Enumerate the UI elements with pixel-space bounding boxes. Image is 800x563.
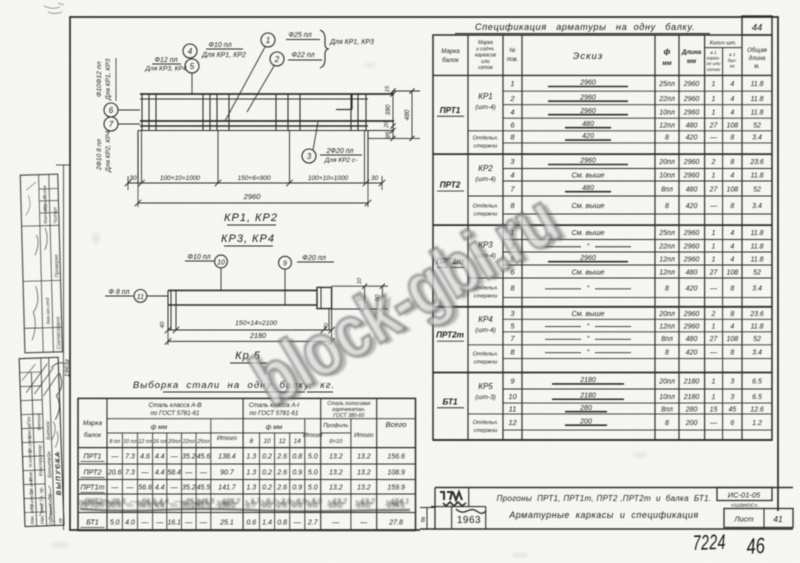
svg-text:4: 4	[730, 81, 734, 88]
svg-text:Битнос: Битнос	[45, 420, 52, 440]
svg-text:4: 4	[188, 47, 193, 56]
svg-text:—: —	[331, 520, 340, 527]
svg-text:100×10=1000: 100×10=1000	[308, 175, 349, 182]
svg-text:7: 7	[109, 120, 114, 129]
beam1 dimension line segments	[128, 182, 382, 184]
svg-text:108: 108	[726, 269, 738, 276]
svg-text:150×14=2100: 150×14=2100	[235, 320, 277, 327]
svg-text:11.8: 11.8	[750, 96, 763, 103]
svg-text:13.2: 13.2	[329, 485, 343, 492]
callout circle 11	[134, 290, 147, 303]
svg-text:Арматурные каркасы и специф: Арматурные каркасы и спецификация	[508, 510, 698, 520]
svg-text:13.2: 13.2	[327, 499, 341, 508]
svg-text:480: 480	[404, 109, 411, 120]
svg-text:0.9: 0.9	[292, 485, 302, 492]
svg-text:5: 5	[190, 62, 195, 71]
svg-text:ИС-01-05: ИС-01-05	[728, 491, 761, 500]
svg-text:45: 45	[728, 406, 736, 413]
svg-text:ПРТ1т: ПРТ1т	[81, 483, 105, 492]
beam2 body outline	[168, 305, 332, 330]
svg-text:—: —	[709, 286, 718, 293]
svg-text:Ф10 пл: Ф10 пл	[187, 254, 210, 261]
svg-text:—: —	[184, 470, 193, 477]
svg-text:3: 3	[510, 157, 515, 166]
svg-text:2960: 2960	[243, 192, 262, 201]
svg-text:—: —	[170, 454, 179, 461]
svg-text:Марка: Марка	[478, 40, 493, 46]
svg-text:См. выше: См. выше	[571, 309, 604, 318]
svg-text:сеток: сеток	[478, 65, 493, 71]
svg-text:—: —	[709, 420, 718, 427]
svg-text:8: 8	[730, 159, 734, 166]
svg-text:КР1: КР1	[478, 92, 493, 101]
svg-text:0.9: 0.9	[290, 499, 300, 508]
svg-text:Прогоны ПРТ1, ПРТ1т, ПРТ2 ,ПР: Прогоны ПРТ1, ПРТ1т, ПРТ2 ,ПРТ2т и балка…	[497, 494, 712, 503]
svg-text:Ф10Ф12 пл: Ф10Ф12 пл	[96, 61, 103, 97]
svg-text:8: 8	[665, 135, 669, 142]
svg-text:159.9: 159.9	[387, 485, 405, 492]
svg-text:13.2: 13.2	[357, 470, 371, 477]
beam2 end head block	[317, 287, 332, 308]
svg-text:8: 8	[510, 133, 515, 142]
svg-text:7.3: 7.3	[125, 470, 135, 477]
beam1 bottom chord lower	[140, 125, 368, 127]
svg-text:″: ″	[587, 244, 590, 251]
svg-text:35.2: 35.2	[182, 485, 196, 492]
svg-text:2960: 2960	[683, 159, 700, 166]
callout circle 1 (Ф25)	[261, 33, 275, 47]
svg-text:10пл: 10пл	[659, 109, 675, 116]
svg-text:и содчч.: и содчч.	[476, 46, 495, 52]
svg-text:420: 420	[686, 135, 698, 142]
svg-text:2960: 2960	[683, 173, 700, 180]
svg-text:45.5: 45.5	[194, 499, 209, 508]
svg-text:4: 4	[510, 171, 514, 180]
svg-text:2Ф20 пл: 2Ф20 пл	[326, 148, 354, 155]
svg-text:20пл: 20пл	[658, 159, 675, 166]
callout circle 2 (Ф22)	[270, 52, 284, 66]
svg-text:—: —	[709, 350, 718, 357]
svg-text:3: 3	[510, 309, 515, 318]
svg-text:8: 8	[730, 311, 734, 318]
svg-text:0.8: 0.8	[277, 520, 287, 527]
spec group ПРТ2 / КР2	[503, 168, 772, 170]
svg-text:27.8: 27.8	[388, 520, 403, 527]
svg-text:27: 27	[709, 269, 719, 276]
svg-text:108: 108	[726, 336, 738, 343]
svg-text:См. выше: См. выше	[571, 267, 604, 276]
svg-text:11: 11	[509, 404, 517, 413]
svg-text:420: 420	[686, 350, 698, 357]
svg-text:22пл: 22пл	[658, 244, 675, 251]
svg-text:4.6: 4.6	[140, 454, 150, 461]
handwritten 46	[746, 534, 766, 560]
svg-text:20.6: 20.6	[107, 470, 122, 477]
svg-text:280: 280	[685, 406, 698, 413]
svg-text:Итого: Итого	[354, 432, 374, 439]
svg-text:ф мм: ф мм	[266, 424, 283, 431]
beam1 right step notch	[351, 94, 353, 110]
svg-text:4.4: 4.4	[155, 485, 165, 492]
svg-text:5: 5	[510, 321, 515, 330]
svg-text:″: ″	[587, 350, 590, 357]
handwritten 7224	[692, 530, 726, 555]
svg-text:4: 4	[730, 109, 734, 116]
svg-text:11.8: 11.8	[750, 244, 763, 251]
svg-text:ПРТ2: ПРТ2	[440, 181, 461, 190]
svg-text:в 1: в 1	[710, 50, 717, 55]
spec table column lines	[467, 35, 469, 440]
svg-text:№: №	[509, 47, 516, 54]
svg-text:420: 420	[686, 203, 698, 210]
svg-text:4: 4	[510, 107, 514, 116]
svg-text:Ф20 пл: Ф20 пл	[302, 253, 326, 262]
callout circle 7	[104, 117, 118, 131]
svg-text:Ф22 пл: Ф22 пл	[291, 52, 314, 59]
svg-text:25.1: 25.1	[219, 520, 234, 527]
code box ИС-01-05	[717, 488, 772, 501]
svg-text:1.7: 1.7	[244, 499, 255, 508]
svg-text:12пл: 12пл	[659, 256, 675, 263]
svg-text:13.2: 13.2	[357, 454, 371, 461]
svg-text:ПРТ1: ПРТ1	[84, 452, 102, 461]
svg-text:11: 11	[137, 294, 144, 301]
svg-text:—: —	[199, 470, 208, 477]
svg-text:2960: 2960	[683, 323, 700, 330]
svg-text:420: 420	[686, 286, 698, 293]
svg-text:2.6: 2.6	[276, 470, 287, 477]
svg-text:13.2: 13.2	[355, 499, 369, 508]
svg-text:46: 46	[746, 534, 766, 560]
upper rotated stamp	[20, 174, 62, 353]
svg-text:95: 95	[386, 131, 392, 138]
svg-text:4: 4	[730, 323, 734, 330]
svg-text:2960: 2960	[579, 94, 596, 101]
svg-text:30: 30	[371, 175, 379, 182]
svg-text:2180: 2180	[579, 377, 596, 384]
logo cell	[468, 488, 470, 507]
svg-text:1.4: 1.4	[262, 520, 272, 527]
svg-text:390: 390	[385, 104, 392, 115]
svg-text:2960: 2960	[683, 81, 700, 88]
svg-text:30: 30	[129, 175, 137, 182]
svg-text:8пл: 8пл	[661, 406, 673, 413]
beam1 stirrups	[141, 94, 143, 131]
sheet number 44 box	[742, 16, 772, 35]
svg-text:бал-: бал-	[728, 58, 738, 63]
svg-text:2960: 2960	[683, 256, 700, 263]
svg-text:8: 8	[730, 350, 734, 357]
svg-text:1963: 1963	[457, 515, 481, 526]
svg-text:20пл: 20пл	[167, 439, 180, 445]
svg-text:3: 3	[730, 394, 734, 401]
svg-text:Колич шт.: Колич шт.	[710, 41, 737, 47]
svg-text:25пл: 25пл	[196, 439, 209, 445]
svg-text:13.2: 13.2	[329, 470, 343, 477]
svg-text:2180: 2180	[683, 379, 700, 386]
svg-text:2.6: 2.6	[274, 499, 285, 508]
svg-text:12пл: 12пл	[659, 122, 675, 129]
svg-text:—: —	[359, 520, 368, 527]
vybor header lines	[107, 418, 416, 420]
svg-text:12: 12	[279, 438, 286, 445]
svg-text:27: 27	[709, 186, 719, 193]
svg-text:9: 9	[283, 261, 287, 268]
svg-text:10 пл: 10 пл	[123, 439, 137, 445]
spec group БТ1 / КР5	[503, 388, 772, 390]
svg-text:КР1, КР2: КР1, КР2	[224, 212, 278, 224]
svg-text:9: 9	[510, 377, 515, 386]
svg-text:11.8: 11.8	[750, 109, 763, 116]
svg-text:6: 6	[730, 420, 734, 427]
svg-text:2180: 2180	[683, 394, 700, 401]
svg-text:8: 8	[665, 286, 669, 293]
svg-text:Отдельн.: Отдельн.	[473, 135, 499, 141]
svg-text:4.4: 4.4	[153, 499, 163, 508]
svg-text:0.9: 0.9	[292, 470, 302, 477]
svg-text:25пл: 25пл	[658, 230, 675, 237]
svg-text:—: —	[168, 499, 177, 508]
svg-text:11.8: 11.8	[750, 230, 763, 237]
svg-text:154.1: 154.1	[385, 499, 403, 508]
svg-text:Гео: Гео	[26, 416, 32, 424]
svg-text:1: 1	[266, 36, 270, 45]
beam2 left edge	[167, 290, 169, 305]
svg-text:1: 1	[712, 96, 716, 103]
left sidebar stamps	[19, 3, 71, 530]
beam2 dim line 40/2100/40	[165, 327, 171, 333]
svg-text:—: —	[141, 470, 150, 477]
svg-text:Ф25 пл: Ф25 пл	[288, 32, 311, 39]
svg-text:ПРТ2т: ПРТ2т	[79, 499, 103, 508]
svg-text:7.3: 7.3	[125, 454, 135, 461]
svg-text:2960: 2960	[579, 158, 596, 165]
title block	[420, 488, 793, 530]
svg-text:КР2: КР2	[478, 164, 493, 173]
svg-text:Профиль: Профиль	[323, 423, 348, 429]
svg-text:4: 4	[730, 96, 734, 103]
svg-text:12пл: 12пл	[659, 323, 675, 330]
svg-text:Итого: Итого	[303, 432, 323, 439]
svg-text:ПРТ2: ПРТ2	[84, 468, 102, 477]
svg-text:22пл: 22пл	[182, 439, 195, 445]
beam2 right dimension lines	[332, 285, 388, 287]
svg-text:56.6: 56.6	[138, 485, 152, 492]
svg-text:8пл: 8пл	[661, 186, 673, 193]
svg-text:480: 480	[582, 121, 594, 128]
svg-text:2.6: 2.6	[276, 485, 287, 492]
svg-text:—: —	[125, 485, 134, 492]
svg-text:8: 8	[510, 348, 515, 357]
svg-text:1: 1	[712, 256, 716, 263]
svg-text:100×10=1000: 100×10=1000	[160, 175, 201, 182]
svg-text:—: —	[155, 520, 164, 527]
brace for КР1, КР3	[320, 30, 329, 68]
svg-text:40: 40	[160, 321, 166, 328]
svg-text:11.8: 11.8	[750, 256, 763, 263]
svg-text:3.4: 3.4	[752, 350, 762, 357]
beam2 bottom chord	[168, 304, 317, 306]
svg-text:—: —	[110, 454, 119, 461]
svg-text:Итого: Итого	[217, 435, 237, 442]
svg-text:δ=10: δ=10	[329, 439, 343, 445]
svg-text:се или: се или	[707, 61, 721, 66]
svg-text:0.2: 0.2	[262, 485, 272, 492]
svg-text:по ГОСТ 5781-61: по ГОСТ 5781-61	[150, 410, 199, 417]
svg-text:Для КР1, КР2: Для КР1, КР2	[201, 52, 246, 59]
svg-text:10: 10	[508, 392, 517, 401]
svg-text:(шт-3): (шт-3)	[475, 394, 496, 401]
svg-text:БТ1: БТ1	[86, 518, 99, 527]
svg-text:Эскиз: Эскиз	[573, 51, 604, 62]
svg-text:13.2: 13.2	[329, 454, 343, 461]
svg-text:ПРТ1: ПРТ1	[440, 106, 461, 115]
svg-text:52: 52	[753, 186, 761, 193]
svg-text:141.7: 141.7	[218, 485, 237, 492]
svg-text:Всего: Всего	[386, 420, 407, 429]
svg-text:БТ1: БТ1	[442, 397, 457, 406]
beam1 body zone dividers	[217, 131, 219, 184]
beam2 top chord	[168, 289, 317, 291]
svg-text:5.0: 5.0	[306, 499, 316, 508]
beam1 bottom chord upper	[140, 120, 394, 122]
svg-text:4.4: 4.4	[155, 454, 165, 461]
svg-text:8: 8	[250, 438, 254, 445]
svg-text:3: 3	[307, 152, 312, 161]
svg-text:13.2: 13.2	[357, 485, 371, 492]
svg-text:2: 2	[711, 311, 716, 318]
svg-text:480: 480	[582, 185, 594, 192]
sidebar inner vertical line	[63, 165, 65, 530]
svg-text:Отдельн.: Отдельн.	[473, 420, 499, 426]
svg-text:12 пл: 12 пл	[138, 439, 152, 445]
svg-text:гв: гв	[58, 518, 64, 524]
svg-text:44: 44	[752, 23, 763, 34]
svg-text:Общая: Общая	[747, 48, 768, 54]
svg-text:6: 6	[510, 120, 515, 129]
svg-text:25пл: 25пл	[658, 81, 675, 88]
svg-text:480: 480	[686, 186, 698, 193]
beam2 stirrup pair left	[170, 290, 172, 330]
vybor outer border	[78, 398, 416, 530]
callout circle 5 (Ф12)	[185, 59, 199, 73]
callout circle 4 (Ф10)	[183, 44, 197, 58]
svg-text:2: 2	[711, 159, 716, 166]
svg-text:1: 1	[712, 81, 716, 88]
svg-text:2960: 2960	[683, 230, 700, 237]
svg-text:пов.: пов.	[507, 57, 518, 63]
svg-text:Согласовано: Согласовано	[55, 317, 62, 350]
svg-text:16.1: 16.1	[167, 520, 181, 527]
beam1 body outline	[138, 131, 368, 184]
svg-text:20пл: 20пл	[658, 379, 675, 386]
svg-text:КР5: КР5	[478, 382, 493, 391]
svg-text:или: или	[481, 59, 490, 65]
svg-text:См. выше: См. выше	[571, 171, 604, 180]
svg-text:Для КР3, КР4: Для КР3, КР4	[144, 66, 187, 73]
callout circle 3 (2Ф20)	[302, 149, 316, 163]
svg-text:(шт-4): (шт-4)	[475, 327, 496, 334]
svg-text:108: 108	[726, 122, 738, 129]
vybor ghost smeared row (scan artifact)	[79, 497, 410, 512]
svg-text:″: ″	[587, 336, 590, 343]
svg-text:ПРТ2т: ПРТ2т	[436, 331, 464, 340]
spec group ПРТ2т / КР4	[503, 318, 772, 320]
svg-text:1: 1	[712, 109, 716, 116]
svg-text:2960: 2960	[579, 255, 596, 262]
svg-text:27: 27	[709, 336, 719, 343]
svg-text:5.0: 5.0	[308, 485, 318, 492]
svg-text:3: 3	[730, 379, 734, 386]
svg-text:Проверке: Проверке	[54, 254, 61, 277]
svg-text:—: —	[709, 203, 718, 210]
svg-text:См. выше: См. выше	[571, 228, 604, 237]
svg-text:280: 280	[579, 405, 592, 412]
svg-text:5.0: 5.0	[308, 454, 318, 461]
svg-text:8: 8	[665, 203, 669, 210]
svg-text:156.6: 156.6	[387, 454, 405, 461]
svg-text:5.0: 5.0	[308, 470, 318, 477]
svg-text:Ф10 пл: Ф10 пл	[208, 42, 231, 49]
svg-text:7224: 7224	[692, 530, 726, 555]
svg-text:ГОСТ 380-60: ГОСТ 380-60	[333, 413, 364, 419]
svg-text:2.7: 2.7	[307, 520, 319, 527]
beam1 right dimension lines	[392, 91, 394, 138]
pencil marks top-left	[44, 3, 64, 14]
svg-text:1: 1	[712, 230, 716, 237]
svg-text:52: 52	[753, 122, 761, 129]
spec group ПРТ1 / КР1	[503, 90, 772, 92]
svg-text:стержни: стержни	[474, 143, 498, 149]
svg-text:8пл: 8пл	[661, 336, 673, 343]
svg-text:ф мм: ф мм	[151, 424, 168, 431]
svg-text:0.2: 0.2	[260, 499, 270, 508]
svg-text:См. выше: См. выше	[571, 201, 604, 210]
svg-text:27: 27	[709, 122, 719, 129]
svg-text:0.6: 0.6	[246, 520, 256, 527]
svg-text:1.2: 1.2	[752, 420, 762, 427]
svg-text:Марка: Марка	[441, 48, 460, 55]
svg-text:Инж.: Инж.	[28, 471, 34, 482]
svg-text:56.6: 56.6	[136, 499, 150, 508]
svg-text:Болштейн: Болштейн	[45, 451, 53, 478]
svg-text:8: 8	[730, 286, 734, 293]
svg-text:Ф 8 пл: Ф 8 пл	[109, 289, 130, 296]
svg-text:1963г: 1963г	[64, 358, 71, 377]
svg-text:8: 8	[665, 350, 669, 357]
svg-text:1.3: 1.3	[246, 485, 256, 492]
sheet box	[724, 509, 793, 528]
svg-text:2.6: 2.6	[276, 454, 287, 461]
callout circle 6	[104, 103, 118, 117]
svg-text:КР4: КР4	[478, 315, 493, 324]
svg-text:11.8: 11.8	[750, 81, 763, 88]
svg-text:45.5: 45.5	[197, 485, 211, 492]
svg-text:11.8: 11.8	[750, 323, 763, 330]
svg-text:20: 20	[384, 121, 390, 129]
svg-text:—: —	[709, 135, 718, 142]
svg-text:каркасов: каркасов	[475, 53, 496, 59]
svg-text:1.3: 1.3	[246, 454, 256, 461]
svg-text:11.8: 11.8	[750, 173, 763, 180]
svg-text:Отдельн.: Отдельн.	[473, 352, 499, 358]
svg-text:2: 2	[509, 94, 515, 103]
svg-text:Для КР2, КР4: Для КР2, КР4	[105, 130, 112, 173]
beam1 soffit line	[138, 130, 394, 132]
svg-text:Попов: Попов	[42, 185, 47, 199]
svg-text:Сталь класса А-В: Сталь класса А-В	[149, 402, 202, 409]
svg-text:150×6=900: 150×6=900	[238, 175, 271, 182]
